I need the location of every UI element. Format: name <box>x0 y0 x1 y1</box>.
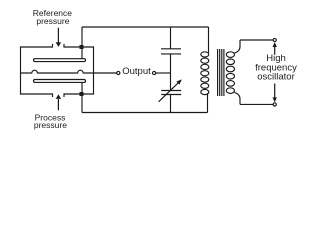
svg-text:pressure: pressure <box>34 120 67 130</box>
svg-text:pressure: pressure <box>36 16 69 26</box>
svg-text:oscillator: oscillator <box>257 72 295 83</box>
svg-text:Output: Output <box>122 66 151 77</box>
